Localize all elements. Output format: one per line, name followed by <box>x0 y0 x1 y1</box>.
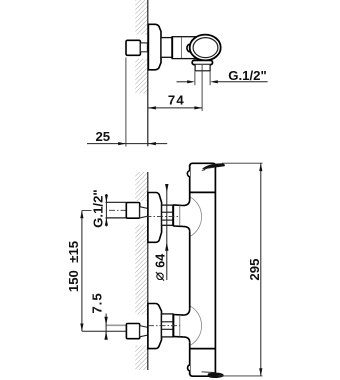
body joint line <box>171 37 173 59</box>
eccentric neck <box>140 207 148 218</box>
port centerline (lower) <box>148 325 180 327</box>
outlet centerline / extension <box>201 65 203 111</box>
dia 64 label (rotated) <box>154 254 168 281</box>
25 dimension line <box>87 143 167 145</box>
head inner ellipse <box>193 38 218 58</box>
150 dimension line <box>81 211 83 332</box>
74 dimension line <box>148 107 202 109</box>
svg-text:64: 64 <box>154 254 168 268</box>
25 extension line (from nut face) <box>125 58 127 147</box>
svg-text:295: 295 <box>247 259 262 281</box>
svg-text:25: 25 <box>95 129 110 144</box>
295 extension line top <box>222 162 263 164</box>
button bump on head <box>187 44 193 52</box>
svg-text:G.1/2": G.1/2" <box>228 68 267 83</box>
top cap top edge <box>190 163 216 166</box>
svg-text:150 ±15: 150 ±15 <box>66 241 81 292</box>
top cap button <box>187 171 190 177</box>
escutcheon (lower) <box>148 304 162 349</box>
wall pipe line (lower) <box>106 324 126 326</box>
concealed pipe stub <box>140 43 147 52</box>
column right edge <box>214 165 216 375</box>
inlet nut (lower) <box>126 324 139 339</box>
boss intersection arc (lower) <box>191 306 202 345</box>
top handle lever <box>203 164 225 169</box>
nipple thread line 2 (lower) <box>162 328 174 330</box>
svg-text:74: 74 <box>168 93 185 108</box>
valve body <box>172 37 196 59</box>
inlet pipe top line <box>106 201 127 203</box>
G.1/2 dimension right arrow and leader <box>216 81 268 83</box>
nipple thread line 1 <box>162 211 173 213</box>
inlet pipe bottom line <box>106 217 127 219</box>
inlet centerline <box>109 209 148 211</box>
port centerline (upper) <box>146 215 180 217</box>
boss face (upper) <box>172 205 174 227</box>
nipple thread line 2 <box>162 219 173 221</box>
threaded nipple (upper) <box>162 205 173 225</box>
wall hatching segment 3 <box>135 346 148 371</box>
centerline of union <box>128 46 199 48</box>
boss face (lower) <box>172 314 174 337</box>
top cap bottom line <box>190 191 216 193</box>
wall hatching (upper segment) <box>135 0 148 35</box>
boss outline (lower) <box>173 309 189 342</box>
150 dim stub extension (top) <box>82 210 92 212</box>
escutcheon (side profile) <box>148 24 161 70</box>
boss outline (upper) <box>173 200 190 232</box>
wall hatching (lower segment) <box>135 59 148 94</box>
wall hatching segment 1 <box>135 172 148 201</box>
wall face line <box>147 0 149 146</box>
head outer ellipse <box>190 35 221 61</box>
threaded nipple (lower) <box>162 314 174 337</box>
boss intersection arc (upper) <box>191 197 202 236</box>
outlet thread tube <box>195 65 210 71</box>
boss seam (lower) <box>179 315 181 337</box>
svg-text:G.1/2": G.1/2" <box>91 189 106 228</box>
295 extension line bottom <box>218 375 263 377</box>
7.5 dim line <box>105 314 107 340</box>
G.1/2 extension line left <box>194 72 196 86</box>
port extension line (lower) <box>82 330 126 332</box>
column left edge (segments around bosses) <box>189 165 191 375</box>
bottom cap button <box>188 365 190 371</box>
wall face line <box>147 172 149 370</box>
G.1/2 extension line right <box>209 72 211 86</box>
nipple thread line 1 (lower) <box>162 321 174 323</box>
concealed nut behind wall <box>126 40 140 55</box>
G.1/2 dimension left arrow <box>177 81 189 83</box>
G.1/2 dim line (left, vertical) <box>105 194 107 227</box>
connector sleeve <box>161 38 172 58</box>
295 dimension line <box>260 163 262 376</box>
bottom cap top line <box>190 348 216 350</box>
bottom cap bottom edge <box>190 373 216 376</box>
wall hatching segment 2 <box>135 225 148 315</box>
outlet collar <box>192 60 212 64</box>
dia 64 dim line <box>166 187 168 281</box>
boss seam (upper) <box>179 205 181 226</box>
bottom handle lever <box>208 373 223 378</box>
body seam line <box>181 38 183 59</box>
inlet nut <box>126 203 139 219</box>
eccentric neck (lower) <box>140 326 148 337</box>
escutcheon (upper) <box>148 193 162 243</box>
bottom handle lever outline <box>202 372 216 373</box>
top lever underside line <box>202 167 214 170</box>
svg-text:7.5: 7.5 <box>89 292 104 313</box>
